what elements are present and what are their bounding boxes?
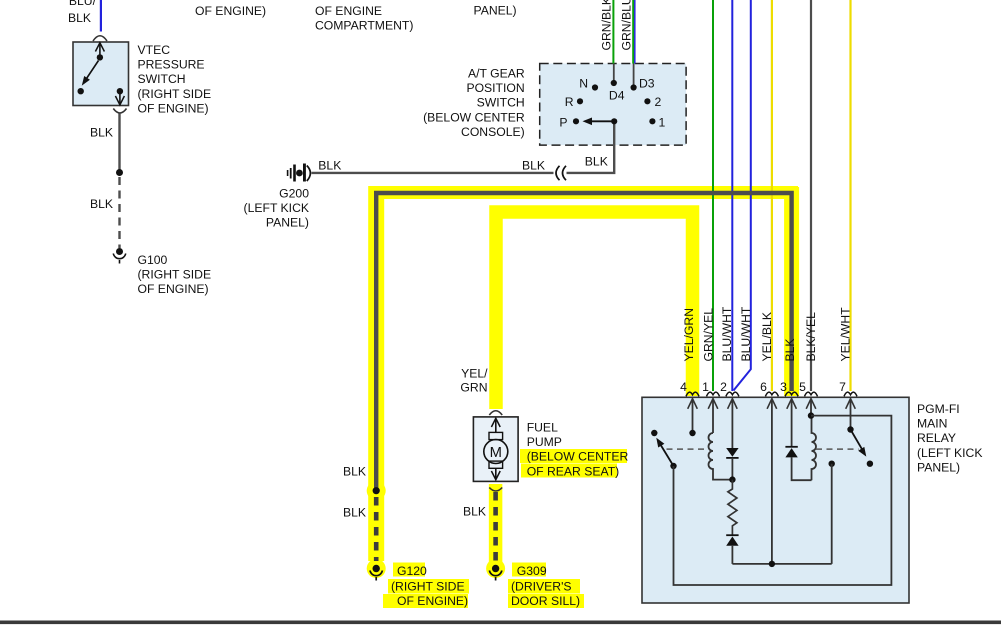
svg-text:FUEL: FUEL — [527, 421, 558, 435]
junction coil1/diode chain — [729, 476, 735, 482]
svg-text:OF ENGINE): OF ENGINE) — [195, 4, 266, 18]
label G309 — [511, 564, 580, 608]
svg-text:5: 5 — [799, 380, 806, 394]
label VTEC pressure switch — [138, 43, 212, 115]
wire YEL/BLK to relay pin 6 — [771, 0, 773, 391]
svg-text:OF ENGINE): OF ENGINE) — [397, 594, 468, 608]
relay right switch — [847, 426, 873, 467]
svg-text:RELAY: RELAY — [917, 431, 956, 445]
wire GRN/BLU to A/T switch D3 — [633, 0, 635, 64]
label G120 — [391, 564, 468, 608]
svg-text:P: P — [559, 116, 567, 130]
svg-text:YEL/BLK: YEL/BLK — [760, 312, 774, 361]
wire GRN/YEL to relay pin 1 — [712, 0, 714, 391]
svg-text:(BELOW CENTER: (BELOW CENTER — [423, 110, 525, 124]
svg-text:BLK: BLK — [343, 465, 366, 479]
ground G309 — [489, 565, 501, 581]
svg-text:PANEL): PANEL) — [474, 4, 517, 18]
highlighter: outer BLK path highlight (relay pin3 to G120) — [367, 186, 798, 578]
svg-text:OF ENGINE): OF ENGINE) — [138, 282, 209, 296]
wire BLK from VTEC switch — [118, 114, 120, 172]
svg-text:OF REAR SEAT): OF REAR SEAT) — [527, 464, 620, 478]
svg-text:SWITCH: SWITCH — [477, 96, 525, 110]
svg-text:BLK: BLK — [463, 505, 486, 519]
svg-text:(RIGHT SIDE: (RIGHT SIDE — [138, 87, 212, 101]
svg-text:2: 2 — [655, 95, 662, 109]
svg-text:YEL/: YEL/ — [461, 367, 488, 381]
relay pin entry arrows — [688, 399, 856, 564]
label A/T gear position switch — [423, 67, 525, 139]
svg-text:OF ENGINE: OF ENGINE — [315, 4, 382, 18]
connector bump below fuel pump — [489, 488, 502, 492]
label fuel pump — [527, 421, 629, 479]
wire BLU/BLK to VTEC switch — [100, 0, 102, 32]
connector bump above VTEC switch — [93, 36, 107, 41]
relay left switch — [651, 430, 677, 469]
svg-text:GRN: GRN — [460, 381, 487, 395]
relay contact feed wire — [829, 461, 835, 564]
svg-text:BLK: BLK — [522, 159, 545, 173]
label YEL/GRN fuel pump lead — [460, 367, 488, 395]
A/T switch internal stubs — [614, 64, 634, 88]
svg-text:GRN/BLU: GRN/BLU — [620, 0, 634, 51]
svg-text:BLK/YEL: BLK/YEL — [804, 312, 818, 362]
svg-text:M: M — [490, 445, 502, 461]
relay internal loop pin5 to left switch — [674, 416, 892, 585]
highlighter: inner YEL/GRN path highlight (relay pin4 to fuel pump) — [486, 212, 692, 578]
svg-text:6: 6 — [760, 380, 767, 394]
svg-text:PRESSURE: PRESSURE — [138, 58, 205, 72]
junction pin6 line — [769, 561, 775, 567]
wire BLK from A/T switch P contact — [567, 121, 615, 173]
wire BLK highlighted: relay pin3 to G120 run — [376, 193, 791, 488]
svg-text:(LEFT KICK: (LEFT KICK — [917, 446, 982, 460]
svg-text:BLU/: BLU/ — [69, 0, 97, 8]
relay pin numbers — [680, 380, 846, 394]
label PGM-FI main relay — [917, 402, 982, 474]
svg-text:(RIGHT SIDE: (RIGHT SIDE — [138, 268, 212, 282]
svg-text:4: 4 — [680, 380, 687, 394]
ground G120 — [370, 565, 382, 581]
relay wire labels vertical — [682, 306, 853, 361]
svg-text:BLU/WHT: BLU/WHT — [720, 306, 734, 361]
svg-text:(RIGHT SIDE: (RIGHT SIDE — [391, 580, 465, 594]
svg-text:A/T GEAR: A/T GEAR — [468, 67, 525, 81]
svg-text:(LEFT KICK: (LEFT KICK — [244, 201, 309, 215]
highlighter: text highlights fuel pump location — [520, 449, 627, 478]
wire BLU/WHT diagonal joining pin 2 — [734, 0, 751, 391]
relay resistor — [728, 480, 737, 536]
highlighter: text highlights G120 — [383, 563, 469, 609]
wire YEL/WHT to relay pin 7 — [849, 0, 851, 391]
junction pin5/coil2 — [808, 412, 814, 418]
svg-text:OF ENGINE): OF ENGINE) — [138, 101, 209, 115]
relay diode D1 (pin 2) — [726, 448, 738, 480]
relay contact for pin 4 — [689, 430, 695, 436]
splice junction — [116, 169, 123, 176]
svg-text:BLK: BLK — [90, 197, 113, 211]
svg-text:PANEL): PANEL) — [266, 216, 309, 230]
svg-text:PANEL): PANEL) — [917, 460, 960, 474]
svg-text:GRN/YEL: GRN/YEL — [702, 308, 716, 362]
svg-text:N: N — [579, 77, 588, 91]
relay pin connector bumps — [686, 392, 857, 396]
VTEC switch arm with arrow — [82, 61, 99, 86]
svg-text:YEL/WHT: YEL/WHT — [839, 307, 853, 362]
svg-text:BLU/WHT: BLU/WHT — [739, 306, 753, 361]
svg-text:POSITION: POSITION — [466, 81, 524, 95]
svg-text:CONSOLE): CONSOLE) — [461, 125, 525, 139]
svg-text:BLK: BLK — [90, 126, 113, 140]
svg-text:BLK: BLK — [68, 11, 91, 25]
svg-text:PGM-FI: PGM-FI — [917, 402, 960, 416]
svg-text:R: R — [565, 95, 574, 109]
svg-text:G309: G309 — [517, 564, 547, 578]
wire BLK dashed to G100 — [118, 177, 120, 248]
svg-text:2: 2 — [720, 380, 727, 394]
A/T gear position switch box — [540, 64, 686, 146]
wire GRN/BLK to A/T switch D4 — [612, 0, 614, 64]
relay bottom link wire — [732, 563, 831, 565]
svg-text:DOOR SILL): DOOR SILL) — [511, 594, 580, 608]
svg-text:D4: D4 — [609, 89, 625, 103]
wire BLU/WHT to relay pin 2 — [731, 0, 733, 391]
svg-text:7: 7 — [839, 380, 846, 394]
splice junction on BLK run — [373, 487, 380, 494]
svg-text:D3: D3 — [639, 77, 655, 91]
connector bump below VTEC switch — [113, 109, 126, 114]
svg-text:1: 1 — [702, 380, 709, 394]
fuel pump motor symbol — [484, 418, 508, 479]
A/T switch position labels — [559, 77, 665, 130]
relay diode D3 (pin 3) — [785, 447, 811, 480]
label G100 — [138, 253, 212, 296]
svg-text:BLK: BLK — [585, 155, 608, 169]
label (of engine compartment) top — [315, 4, 413, 33]
svg-text:(BELOW CENTER: (BELOW CENTER — [527, 450, 629, 464]
wire BLK dashed to G309 — [493, 492, 498, 561]
svg-text:BLK: BLK — [318, 159, 341, 173]
relay coil 2 — [812, 416, 817, 481]
svg-text:COMPARTMENT): COMPARTMENT) — [315, 19, 413, 33]
svg-text:BLK: BLK — [343, 506, 366, 520]
svg-text:(DRIVER'S: (DRIVER'S — [511, 580, 572, 594]
wire BLK from G200 to connector — [312, 172, 554, 174]
fuel pump box — [473, 417, 518, 482]
relay mechanical link dashes right — [816, 448, 859, 450]
wire BLK/YEL to relay pin 5 — [810, 0, 812, 391]
VTEC switch lower-left contact — [78, 88, 84, 94]
svg-text:YEL/GRN: YEL/GRN — [682, 308, 696, 362]
wire BLK dashed to G120 — [374, 497, 379, 561]
svg-text:SWITCH: SWITCH — [138, 72, 186, 86]
svg-text:VTEC: VTEC — [138, 43, 171, 57]
relay mechanical link dashes left — [667, 448, 708, 450]
svg-text:G100: G100 — [138, 253, 168, 267]
A/T switch selector arrow pointing to P — [583, 118, 615, 126]
A/T switch contact dots — [573, 80, 656, 125]
svg-text:BLK: BLK — [783, 338, 797, 361]
svg-text:G200: G200 — [279, 187, 309, 201]
svg-text:3: 3 — [780, 380, 787, 394]
in-line connector C between G200 and A/T switch — [556, 166, 566, 180]
svg-text:PUMP: PUMP — [527, 435, 562, 449]
bottom page divider bar — [0, 621, 1001, 625]
svg-text:G120: G120 — [397, 564, 427, 578]
node BLU/BLK label — [68, 0, 97, 25]
ground G100 — [113, 248, 125, 264]
svg-text:GRN/BLK: GRN/BLK — [600, 0, 614, 51]
svg-text:MAIN: MAIN — [917, 417, 947, 431]
relay coil 1 — [709, 433, 733, 480]
relay diode D2 — [726, 535, 738, 564]
highlighter: text highlights G309 — [508, 563, 584, 609]
VTEC switch right contact with down arrow — [115, 88, 124, 105]
svg-text:1: 1 — [659, 116, 666, 130]
PGM-FI main relay box — [642, 397, 909, 603]
VTEC pressure switch box — [73, 42, 129, 106]
label G200 — [244, 187, 310, 230]
ground bus G200 symbol — [288, 164, 311, 182]
VTEC switch internals: top terminal arrow — [95, 43, 104, 61]
connector bump above fuel pump — [489, 411, 502, 415]
